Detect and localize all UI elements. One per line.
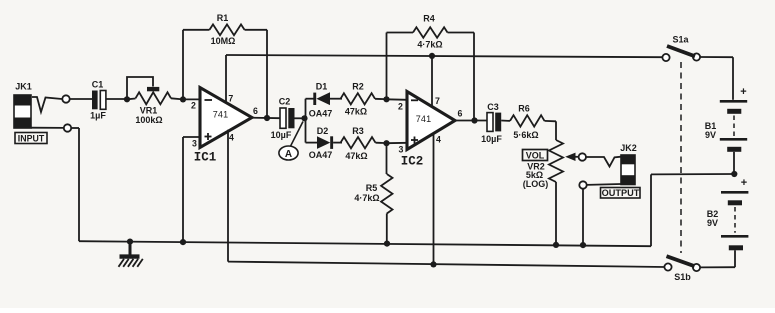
label VOL box (523, 150, 548, 161)
IC2 pin 3 number (399, 145, 404, 155)
label INPUT (15, 133, 47, 144)
JK2 tip terminal circle (579, 153, 586, 160)
wire: node to IC2 pin 3 (387, 142, 408, 144)
input jack JK1 (14, 82, 32, 128)
junction: VR2 / ground rail (553, 242, 559, 248)
svg-text:4: 4 (229, 133, 234, 143)
wire: IC2 pin 4 to V- rail (433, 133, 435, 264)
svg-text:R2: R2 (352, 82, 364, 92)
switch gang link (680, 62, 682, 253)
svg-text:+: + (740, 86, 746, 98)
ground symbol (119, 239, 143, 267)
resistor R4 (387, 14, 475, 50)
svg-text:R6: R6 (518, 104, 530, 114)
svg-text:3: 3 (192, 139, 197, 149)
wire: R1 left leg down to input node (182, 30, 184, 100)
junction: IC1 output / R1 (264, 115, 270, 121)
svg-text:R1: R1 (217, 13, 229, 23)
wire: node to IC2 pin 2 (387, 98, 408, 101)
svg-text:D1: D1 (316, 82, 328, 92)
wire: C2 to diode node (295, 117, 303, 119)
diode D1 (306, 82, 343, 119)
label VR2 (527, 162, 545, 172)
svg-text:S1a: S1a (672, 35, 689, 45)
svg-text:(LOG): (LOG) (523, 179, 549, 189)
svg-text:C2: C2 (279, 97, 291, 107)
wire: R6 to VR2 top (545, 121, 557, 140)
battery B1 (705, 86, 747, 174)
IC2 pin 2 number (398, 102, 403, 112)
junction: battery midpoint (731, 171, 737, 177)
capacitor C1 (90, 80, 106, 121)
resistor R6 (510, 104, 545, 141)
wire: R1 right leg down to IC1 output (266, 30, 268, 118)
resistor R5 (354, 143, 392, 243)
op-amp IC1 (194, 88, 252, 165)
IC2 pin 7 number (435, 96, 440, 106)
svg-text:741: 741 (213, 110, 229, 120)
wire: IC1 pin 4 to V- rail (227, 130, 229, 262)
junction: V+ rail / IC2 pin 7 (429, 53, 435, 59)
svg-text:6: 6 (458, 109, 463, 119)
svg-text:4: 4 (436, 135, 441, 145)
svg-text:R3: R3 (352, 126, 364, 136)
svg-text:7: 7 (435, 96, 440, 106)
svg-text:6: 6 (253, 106, 258, 116)
switch S1a (662, 35, 700, 62)
svg-text:4·7kΩ: 4·7kΩ (354, 193, 379, 203)
svg-text:10µF: 10µF (481, 134, 502, 144)
wire: IC1 pin 7 to V+ rail (225, 55, 227, 103)
svg-text:4·7kΩ: 4·7kΩ (417, 40, 442, 50)
wire: battery midpoint to ground rail (651, 174, 734, 246)
svg-text:741: 741 (416, 114, 432, 124)
diode D2 (306, 126, 343, 160)
svg-text:5·6kΩ: 5·6kΩ (513, 130, 538, 140)
JK1 sleeve wire to terminal (31, 127, 64, 129)
svg-text:R5: R5 (366, 183, 378, 193)
svg-text:3: 3 (399, 145, 404, 155)
label VR2 taper (523, 179, 549, 189)
IC1 pin 6 number (253, 106, 258, 116)
op-amp IC2 (401, 92, 455, 169)
svg-text:OA47: OA47 (309, 109, 333, 119)
wire: R4 right leg down to IC2 output (473, 33, 475, 121)
svg-text:2: 2 (191, 101, 196, 111)
JK2 sleeve terminal circle (579, 181, 586, 188)
wire: JK1 sleeve to ground rail (71, 128, 79, 241)
wire: S1b to B2 (700, 266, 735, 268)
svg-text:R4: R4 (423, 14, 435, 24)
junction: V- rail / IC2 pin 4 (430, 261, 436, 267)
svg-text:JK1: JK1 (15, 82, 32, 92)
capacitor C3 (481, 102, 502, 144)
node A test point (279, 122, 303, 161)
wire: IC1 pin 3 to ground rail (183, 137, 200, 242)
IC2 pin 6 number (458, 109, 463, 119)
junction: IC2 output / R4 (471, 117, 477, 123)
capacitor C2 (271, 97, 295, 140)
svg-text:100kΩ: 100kΩ (135, 115, 162, 125)
IC1 pin 3 number (192, 139, 197, 149)
label VR2 value (526, 170, 543, 180)
wire: VR2 bottom to ground rail (555, 182, 557, 245)
svg-text:D2: D2 (317, 126, 329, 136)
resistor R1 (183, 13, 267, 46)
wire: node to IC1 pin 2 (183, 98, 201, 100)
potentiometer VR1 (135, 87, 171, 125)
wire: JK2 tip hook (586, 157, 621, 167)
wire: C3 to R6 (501, 120, 510, 122)
svg-text:9V: 9V (707, 218, 718, 228)
IC1 pin 4 number (229, 133, 234, 143)
V+ supply rail (226, 55, 662, 57)
junction: IC2 pin 3 node (383, 140, 389, 146)
battery B2 (707, 177, 749, 267)
svg-text:47kΩ: 47kΩ (345, 107, 367, 117)
svg-text:VOL: VOL (526, 151, 545, 161)
wire: JK2 sleeve to ground rail (582, 189, 584, 245)
svg-text:9V: 9V (705, 130, 716, 140)
JK1 tip terminal circle (62, 95, 69, 102)
IC2 pin 4 number (436, 135, 441, 145)
V- supply rail (228, 262, 664, 267)
svg-text:10MΩ: 10MΩ (211, 36, 236, 46)
wire: VR1 to IC1 pin 2 node (171, 98, 183, 99)
JK1 sleeve terminal circle (64, 124, 71, 131)
wire: S1a to B1 (700, 57, 733, 100)
svg-text:JK2: JK2 (620, 143, 637, 153)
svg-text:OA47: OA47 (309, 150, 333, 160)
output jack JK2 (620, 143, 637, 184)
svg-text:OUTPUT: OUTPUT (602, 188, 640, 198)
junction: IC2 pin 2 node (383, 96, 389, 102)
junction: diode node (301, 115, 307, 121)
wire: IC2 output to C3 (455, 120, 487, 122)
svg-text:2: 2 (398, 102, 403, 112)
junction: R5 to ground rail (384, 241, 390, 247)
wire: IC2 pin 7 to V+ rail (431, 56, 433, 107)
wire: JK1 tip to C1 (70, 98, 92, 100)
ground rail (79, 241, 651, 246)
svg-text:+: + (741, 177, 747, 189)
wire: VR1 wiper loop (127, 77, 153, 99)
svg-text:IC1: IC1 (194, 150, 217, 164)
wire: IC1 output to C2 (252, 117, 280, 120)
resistor R3 (341, 126, 387, 161)
JK1 tip contact hook (32, 97, 62, 112)
junction: ground rail / IC1 pin3 branch (180, 239, 186, 245)
potentiometer VR2 (549, 140, 579, 182)
IC1 pin 7 number (228, 94, 233, 104)
wire: JK2 sleeve wire (587, 183, 621, 186)
IC1 pin 2 number (191, 101, 196, 111)
resistor R2 (341, 82, 387, 117)
junction: IC1 inverting input node (180, 96, 186, 102)
svg-text:S1b: S1b (674, 272, 691, 282)
svg-text:7: 7 (228, 94, 233, 104)
svg-text:INPUT: INPUT (18, 133, 45, 143)
wire: diode branch vertical (305, 99, 307, 143)
switch S1b (664, 256, 700, 282)
label OUTPUT (601, 188, 641, 199)
svg-text:C3: C3 (487, 102, 499, 112)
wire: VR1 left lead (127, 98, 136, 101)
svg-text:10µF: 10µF (271, 130, 292, 140)
svg-text:47kΩ: 47kΩ (345, 151, 367, 161)
wire: C1 to VR1 node (106, 98, 125, 100)
svg-text:IC2: IC2 (401, 154, 424, 168)
svg-text:1µF: 1µF (90, 111, 106, 121)
svg-text:C1: C1 (92, 80, 104, 90)
junction: C1/VR1 wiper node (124, 96, 130, 102)
wire: pin2 node up to R4 (386, 33, 388, 100)
junction: JK2 sleeve / ground rail (580, 242, 586, 248)
svg-text:A: A (285, 149, 292, 160)
